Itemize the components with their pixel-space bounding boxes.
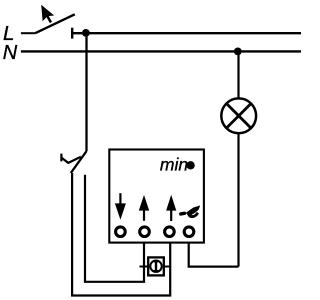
svg-text:N: N (3, 42, 18, 64)
svg-text:min: min (160, 155, 188, 175)
